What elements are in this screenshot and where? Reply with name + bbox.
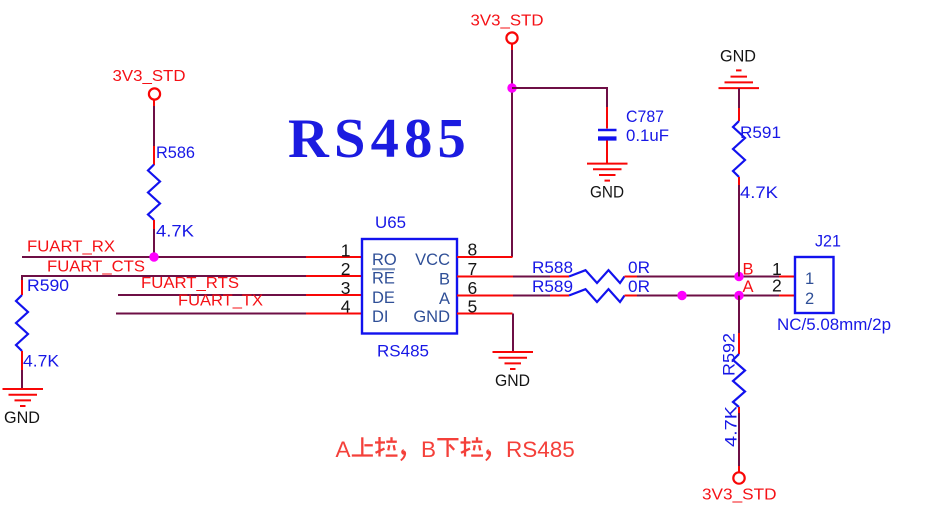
wire pin 5 down to ground bbox=[512, 314, 514, 353]
resistor R589 bbox=[532, 277, 650, 302]
svg-text:R588: R588 bbox=[532, 258, 573, 277]
svg-text:RS485: RS485 bbox=[506, 437, 575, 462]
svg-text:3V3_STD: 3V3_STD bbox=[702, 487, 777, 504]
ground (top right, inverted) bbox=[719, 70, 760, 88]
svg-text:2: 2 bbox=[341, 259, 351, 279]
svg-text:A: A bbox=[743, 278, 754, 296]
svg-text:4.7K: 4.7K bbox=[23, 352, 60, 371]
ground (below C787) bbox=[587, 164, 628, 181]
wire FUART_RX row bbox=[22, 256, 306, 258]
power symbol 3V3_STD (top middle) bbox=[471, 13, 544, 51]
ground (pin 5) bbox=[493, 352, 534, 369]
junction net B / R591 bbox=[734, 272, 743, 281]
RE overbar bbox=[372, 268, 395, 270]
wire net A down to R592 bbox=[738, 296, 740, 334]
power stub bbox=[738, 466, 740, 472]
capacitor C787 bbox=[598, 107, 669, 164]
svg-text:4.7K: 4.7K bbox=[740, 183, 779, 202]
wire FUART_TX row bbox=[116, 313, 306, 315]
svg-text:RE: RE bbox=[372, 270, 395, 288]
note CJK shang (up) bbox=[352, 437, 373, 455]
svg-text:FUART_RTS: FUART_RTS bbox=[141, 275, 239, 292]
note CJK la (pull) bbox=[461, 437, 484, 457]
wire R592 to 3V3_STD bbox=[738, 413, 740, 466]
svg-text:DI: DI bbox=[372, 308, 389, 326]
svg-text:A: A bbox=[439, 290, 450, 308]
svg-text:R586: R586 bbox=[156, 143, 195, 162]
power symbol 3V3_STD (bottom) bbox=[702, 472, 777, 503]
svg-text:RS485: RS485 bbox=[288, 108, 471, 170]
J21 pin 1 stub bbox=[779, 276, 795, 278]
wire corner down to R590 bbox=[21, 275, 23, 280]
svg-text:GND: GND bbox=[4, 408, 40, 427]
resistor R588 bbox=[532, 258, 650, 283]
wire R586 to FUART_RX net bbox=[153, 229, 155, 257]
wire R591 to net B bbox=[738, 185, 740, 277]
note text: A pull-up, B pull-down, RS485 bbox=[336, 437, 575, 462]
svg-text:0R: 0R bbox=[628, 258, 650, 277]
pin 2 stub bbox=[306, 275, 362, 277]
svg-text:GND: GND bbox=[590, 183, 624, 202]
pin names bbox=[372, 251, 450, 326]
wire 3V3_STD down to pin 8 bbox=[511, 50, 513, 257]
wire R588 to J21 pin 1 (net B) bbox=[637, 276, 779, 278]
junction VCC net / C787 branch bbox=[507, 83, 516, 92]
junction net A / R592 bbox=[734, 291, 743, 300]
svg-text:3: 3 bbox=[341, 278, 351, 298]
svg-text:4.7K: 4.7K bbox=[722, 405, 741, 447]
svg-text:FUART_RX: FUART_RX bbox=[27, 239, 116, 256]
svg-text:GND: GND bbox=[413, 308, 450, 326]
J21 pin 2 stub bbox=[779, 295, 795, 297]
svg-text:1: 1 bbox=[805, 270, 814, 288]
note fullwidth comma bbox=[485, 449, 491, 461]
resistor R590 bbox=[16, 276, 69, 371]
wire R589 to J21 pin 2 (net A) bbox=[637, 295, 779, 297]
pin 4 stub bbox=[306, 313, 362, 315]
note CJK xia (down) bbox=[437, 439, 458, 457]
pin 7 stub bbox=[457, 276, 513, 278]
svg-text:GND: GND bbox=[720, 47, 756, 66]
svg-text:R592: R592 bbox=[720, 333, 739, 376]
pin 6 stub bbox=[457, 295, 513, 297]
svg-text:U65: U65 bbox=[375, 213, 406, 232]
svg-text:B: B bbox=[743, 261, 754, 279]
svg-text:C787: C787 bbox=[626, 107, 664, 126]
pin 5 stub bbox=[457, 313, 513, 315]
svg-text:RO: RO bbox=[372, 251, 397, 269]
svg-text:VCC: VCC bbox=[415, 251, 450, 269]
power symbol 3V3_STD (top left) bbox=[113, 68, 186, 106]
connector J21 bbox=[772, 232, 891, 335]
connector body bbox=[795, 257, 834, 313]
svg-text:J21: J21 bbox=[815, 232, 841, 251]
junction FUART_RX / R586 bbox=[149, 252, 158, 261]
power circle bbox=[506, 32, 517, 43]
wire FUART_RTS row bbox=[118, 294, 306, 296]
wire 3V3_STD to R586 bbox=[153, 106, 155, 146]
note CJK la (pull) bbox=[375, 437, 398, 457]
svg-text:FUART_CTS: FUART_CTS bbox=[47, 259, 145, 276]
R588 right terminal bbox=[625, 276, 638, 278]
svg-text:1: 1 bbox=[341, 241, 351, 261]
wire VCC net to C787 bbox=[512, 88, 607, 107]
note fullwidth comma bbox=[400, 449, 406, 461]
wire R590 to ground bbox=[21, 370, 23, 389]
svg-text:NC/5.08mm/2p: NC/5.08mm/2p bbox=[777, 315, 891, 334]
wire pin 7 to R588 bbox=[513, 276, 550, 278]
svg-text:RS485: RS485 bbox=[377, 342, 429, 361]
svg-text:3V3_STD: 3V3_STD bbox=[113, 68, 186, 85]
chip body bbox=[362, 239, 457, 334]
svg-text:4: 4 bbox=[341, 297, 351, 317]
R589 left terminal bbox=[550, 295, 569, 297]
svg-text:B: B bbox=[439, 271, 450, 289]
svg-text:R589: R589 bbox=[532, 277, 573, 296]
svg-text:B: B bbox=[421, 437, 436, 462]
svg-text:2: 2 bbox=[805, 290, 814, 308]
resistor R591 bbox=[733, 108, 781, 202]
svg-text:0R: 0R bbox=[628, 277, 650, 296]
svg-text:0.1uF: 0.1uF bbox=[626, 126, 669, 145]
resistor R586 bbox=[148, 143, 195, 241]
pin 3 stub bbox=[306, 294, 362, 296]
svg-text:R591: R591 bbox=[740, 123, 781, 142]
IC U65 RS485 transceiver bbox=[341, 213, 477, 361]
R589 right terminal bbox=[625, 295, 638, 297]
svg-text:GND: GND bbox=[495, 371, 530, 390]
wire ground to R591 bbox=[738, 88, 740, 108]
svg-text:2: 2 bbox=[772, 276, 782, 296]
pin 1 stub bbox=[306, 256, 362, 258]
ground (below R590) bbox=[3, 389, 44, 406]
svg-text:3V3_STD: 3V3_STD bbox=[471, 13, 544, 30]
svg-text:R590: R590 bbox=[27, 276, 69, 295]
wire FUART_CTS row bbox=[22, 275, 306, 277]
power circle bbox=[733, 472, 744, 483]
svg-text:FUART_TX: FUART_TX bbox=[178, 293, 264, 310]
wire pin 6 to R589 bbox=[513, 295, 550, 297]
power circle bbox=[149, 88, 160, 99]
svg-text:A: A bbox=[336, 437, 351, 462]
resistor R592 bbox=[720, 333, 746, 447]
svg-text:4.7K: 4.7K bbox=[156, 222, 195, 241]
R588 left terminal bbox=[550, 276, 569, 278]
pin 8 stub bbox=[457, 256, 513, 258]
junction on net A bbox=[677, 291, 686, 300]
svg-text:DE: DE bbox=[372, 289, 395, 307]
